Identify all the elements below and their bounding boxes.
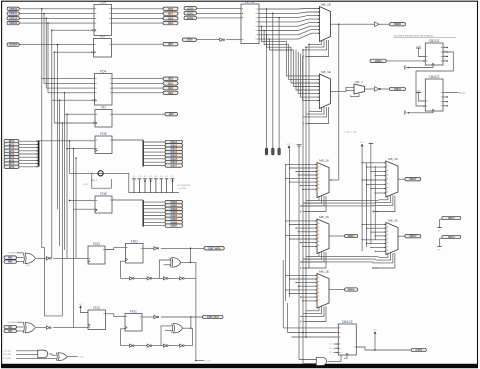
wire L2 input 0 (197, 7, 242, 9)
svg-text:5: 5 (256, 26, 257, 28)
bus B branch 7 (143, 225, 165, 227)
svg-text:IR2: IR2 (8, 329, 12, 333)
wire group-B 1 to bus (19, 143, 37, 145)
vertical to D1 (287, 303, 289, 333)
wire group-B 4 to bus (19, 153, 37, 155)
probe stub 3 (278, 18, 281, 155)
wire input row 0 to FD4a (19, 8, 94, 10)
mux M8_16 #4 (317, 215, 329, 254)
bus B branch 5 (143, 218, 165, 220)
net label input (row5 left) (7, 43, 19, 47)
wire M4 input 1 (286, 220, 317, 222)
long vertical net (x196) down (195, 278, 197, 360)
CB4CE right pin 1 (443, 101, 448, 103)
wire R1 input 7 (371, 188, 386, 190)
wire M3 input 8 (303, 188, 317, 190)
wire B2 to gate (17, 326, 24, 328)
wire R1 input 3 (371, 170, 386, 172)
svg-text:1: 1 (90, 199, 91, 201)
wire vcc to FDCa (81, 306, 89, 313)
wire C1 to AND (16, 350, 38, 352)
pull-up element 4 (154, 176, 158, 193)
svg-text:1: 1 (92, 172, 93, 174)
mux M8_16 #3 (317, 158, 329, 197)
svg-text:T_OUT: T_OUT (78, 357, 85, 359)
MUXR2 select wrap 1 (376, 253, 391, 260)
oscillator/buffer symbol (98, 171, 103, 176)
probe stub 2 (272, 13, 275, 155)
svg-text:FDC: FDC (130, 309, 137, 313)
wire M2_1 output (365, 88, 375, 90)
wire vcc down (374, 332, 376, 351)
svg-text:R2: R2 (438, 249, 440, 251)
wire FD4a Q0 to label (112, 8, 164, 10)
wire M3 input 3 (296, 171, 317, 173)
flip-flop FDCa (88, 306, 106, 330)
wire FDa Q to label (112, 43, 164, 45)
pull-up rail horizontal (129, 192, 179, 194)
svg-text:M2_1: M2_1 (355, 80, 363, 84)
termination stub 2 (437, 245, 441, 247)
net label FDa Q (163, 42, 178, 46)
select line M4-R2 2 (300, 261, 374, 263)
net label source L2 input 0 (184, 6, 197, 10)
bus A branch 4 (143, 154, 165, 156)
wire M4 input 4 (298, 231, 317, 233)
wire G5 out to CB4CE-b (328, 355, 341, 361)
trunk vertical wire 1 x=44.0 (43, 14, 45, 84)
svg-text:FDE: FDE (100, 132, 107, 136)
wrap wire 3 to MUX2 in4 (269, 39, 319, 86)
svg-text:V0: V0 (133, 176, 135, 178)
select line M3-R1 1 (303, 202, 376, 204)
wire M2_1 select wrap (351, 94, 360, 97)
pull-up element 2 (143, 176, 147, 193)
wire R1 input 6 (367, 183, 386, 185)
wire FD4b Q0 to label (112, 78, 163, 80)
svg-text:1: 1 (90, 139, 91, 141)
chain-B inverter 3 (180, 344, 185, 347)
svg-text:1. Note: 1. Note: 1. Note: 1. Note (344, 131, 357, 134)
net label center A (long) (204, 246, 224, 250)
svg-text:XQA7: XQA7 (170, 164, 177, 168)
input pill B2 (4, 325, 17, 329)
wire X1 input 2 (164, 264, 171, 266)
chain-B inverter 2 (163, 344, 168, 347)
svg-text:CRS10: CRS10 (9, 7, 18, 11)
wire to FDEb D2 (74, 208, 95, 210)
net label bus B bit 1 (165, 203, 183, 207)
wire to FDEa D2 (67, 148, 95, 150)
svg-text:M8_16: M8_16 (388, 218, 398, 222)
svg-text:V1: V1 (138, 176, 140, 178)
right vertical 3 (x370.9) (370, 144, 372, 244)
net label bus B bit 6 (165, 220, 183, 224)
counter CB2CE (425, 39, 443, 65)
net label group-B input 0 (4, 139, 19, 143)
pull-up element 0 (132, 176, 136, 193)
wire vertical E into CB4CE-b D2 junction (305, 336, 307, 338)
svg-text:MXR2: MXR2 (409, 234, 417, 238)
net label group-B input 3 (4, 149, 19, 153)
MUX3 select wrap 2 (300, 196, 324, 206)
svg-text:1: 1 (256, 9, 257, 11)
svg-text:VCC: VCC (360, 142, 365, 144)
svg-text:QD2: QD2 (168, 16, 174, 20)
wire group-B 6 to bus (19, 159, 37, 161)
net label M4 out (345, 234, 358, 238)
svg-text:FD4: FD4 (100, 69, 106, 73)
wire gnd to CB2CE (419, 48, 426, 57)
input pill B3 (4, 329, 17, 333)
wire chain B up to FDCc (121, 329, 126, 346)
wire R2 output (398, 235, 405, 237)
and-gate G5 (bottom center) (316, 357, 326, 365)
wire pill2 to stub (440, 239, 442, 247)
wire AND out to OR (49, 354, 57, 355)
MUX5 select wrap 0 (306, 307, 319, 311)
svg-text:FDE: FDE (100, 192, 107, 196)
vcc stub right column 1 (360, 142, 365, 146)
CB4CE Q0 long wire (443, 92, 458, 94)
svg-text:CB4CE: CB4CE (429, 75, 441, 79)
svg-text:L1: L1 (330, 348, 332, 350)
wire L2 pin3 to MUX1 in3 (259, 16, 320, 18)
svg-text:LDS1: LDS1 (187, 11, 194, 15)
MUX5 select wrap 1 (303, 307, 322, 314)
input pill A2 (4, 256, 17, 260)
net label source L2 input 2 (184, 16, 197, 20)
gnd stub above bundle (297, 144, 302, 146)
right vertical 1 (x362.1) (361, 144, 363, 251)
trunk vertical wire 4 x=51.8 (51, 30, 53, 258)
flip-flop FDDc (center) (126, 239, 144, 263)
svg-text:GND: GND (416, 90, 421, 92)
flip-flop FDa (94, 34, 112, 57)
svg-text:FBM1: FBM1 (394, 87, 401, 91)
net label FD4a Q1 (163, 12, 178, 16)
wire M4 input 3 (296, 227, 317, 229)
wire group-B 7 to bus (19, 163, 37, 165)
wire CB4CE-b clr down (344, 355, 347, 358)
bus collector vertical (left group B) (38, 140, 40, 166)
net label group-B input 6 (4, 158, 19, 162)
wire to FDEb D (70, 199, 96, 201)
wire M4 input 2 (290, 224, 318, 226)
net label bus A bit 7 (165, 164, 183, 168)
wire INV1 to L2_1E (226, 39, 241, 41)
bundle vertical D (x303) (302, 50, 304, 364)
or-gate G1 (cluster A) (23, 253, 35, 264)
select line M3-R1 0 (306, 199, 379, 201)
svg-text:M8_16: M8_16 (319, 158, 329, 162)
trunk vertical wire 7 x=59.6 (59, 100, 61, 246)
net label FD4a Q2 (163, 16, 178, 20)
chain-A inverter 0 (130, 277, 135, 280)
wire FDEa Q to bus tap (112, 139, 143, 141)
svg-text:MXR1: MXR1 (409, 177, 417, 181)
svg-text:WR_EN1: WR_EN1 (4, 354, 12, 356)
wire FD4b Q2 to label (112, 87, 163, 89)
flip-flop FDEa (95, 132, 112, 154)
svg-text:2: 2 (242, 13, 243, 15)
trunk vertical wire 11 x=69.5 (69, 141, 71, 174)
wire M3 input 2 (290, 167, 318, 169)
trunk vertical wire 13 x=76.0 (75, 158, 77, 258)
bus bar B (vertical) (142, 200, 144, 226)
net label bottom right (411, 348, 426, 352)
MUX1 select wrap 2 (303, 40, 327, 50)
svg-text:QD0: QD0 (168, 7, 174, 11)
svg-text:RD_EN1: RD_EN1 (4, 358, 11, 360)
CB4CE right pin 2 (443, 105, 448, 107)
wire M5 input 7 (300, 296, 317, 298)
svg-text:2: 2 (256, 13, 257, 15)
trunk vertical wire 8 x=62.3 (61, 123, 63, 316)
inverter INV4 (center) (154, 247, 159, 250)
net label bus A bit 3 (165, 150, 183, 154)
terminal tick left of clr wire (404, 111, 406, 115)
svg-text:QD1: QD1 (168, 12, 174, 16)
svg-text:FDD: FDD (93, 242, 100, 246)
svg-text:7: 7 (256, 34, 257, 36)
wire M5 input 6 (290, 293, 318, 295)
chain-B inverter 1 (147, 344, 152, 347)
wire FD4b Q3 to label (112, 92, 163, 94)
wrap wire 0 to MUX2 in1 (262, 26, 320, 76)
net label FD4a Q3 (163, 21, 178, 25)
wire L2 input 1 (197, 12, 242, 14)
MUX1 select wrap 0 (309, 40, 322, 44)
svg-text:MXB4: MXB4 (348, 234, 356, 238)
bundle wire to MUX2 in7 (300, 54, 319, 97)
svg-text:3: 3 (242, 17, 243, 19)
wire input row 3 to FD4a (19, 22, 94, 24)
net label input IBUF0 (top-left) (7, 7, 19, 11)
bus B branch 0 (143, 201, 165, 203)
wire FDCa Q up-over to FDCc (106, 314, 126, 317)
wire group-B 3 to bus (19, 150, 37, 152)
svg-text:OR3: OR3 (26, 265, 30, 267)
standalone net label right 2 (442, 235, 461, 239)
wire clk FD4a (52, 29, 94, 31)
net label bus A bit 6 (165, 160, 183, 164)
svg-text:FD4: FD4 (100, 0, 106, 4)
counter CB4CE (right) (425, 75, 443, 111)
wire L2 pin1 to MUX1 in1 (259, 8, 320, 11)
wire M5 input 1 (286, 274, 317, 276)
wire G1 to INV2 (36, 257, 46, 259)
wire R2 input 4 (375, 235, 386, 237)
net label FDb Q (165, 112, 178, 116)
wire pill1 to stub (440, 220, 442, 228)
wire group-B 5 to bus (19, 156, 37, 158)
svg-text:QD3: QD3 (168, 21, 174, 25)
svg-text:V5: V5 (160, 176, 162, 178)
pull-up element 5 (160, 176, 164, 193)
wire C3 to OR (16, 357, 57, 359)
wire row5 to FDa D (19, 44, 93, 46)
wire B1 to gate (17, 321, 24, 323)
bus B branch 6 (143, 221, 165, 223)
wire R2 input 3 (371, 231, 386, 233)
svg-text:XQB7: XQB7 (170, 224, 177, 228)
net label bus B bit 2 (165, 207, 183, 211)
input pill A3 (4, 260, 17, 264)
trunk vertical wire 6 x=57.5 (57, 45, 59, 210)
wire input row 2 to FD4a (19, 17, 94, 19)
wire C2 to AND (16, 353, 38, 355)
svg-text:M8_1E: M8_1E (321, 2, 331, 6)
wire CB4CE-b D0 (283, 327, 338, 329)
MUX2 select wrap 0 (309, 107, 322, 111)
svg-text:QP0: QP0 (168, 42, 174, 46)
terminal tick left of clr wire upper (404, 65, 406, 69)
wire M3 input 7 (300, 185, 317, 187)
wire clk FD4b (52, 99, 95, 101)
wire G5 in1 (299, 359, 316, 361)
feedback loop wire around oscillator (92, 173, 112, 188)
vcc stub above bundle (287, 144, 292, 148)
net label center B (long) (203, 315, 223, 319)
mux M8_1E #1 (top) (320, 2, 331, 41)
svg-text:L0: L0 (330, 344, 332, 346)
svg-text:M8_1E: M8_1E (319, 269, 329, 273)
svg-text:SRC1: SRC1 (448, 216, 455, 220)
CB2CE right pin 1 (443, 51, 448, 53)
net label bus A bit 5 (165, 157, 183, 161)
net label source L2 input 1 (184, 11, 197, 15)
wire junction down to XOR A (189, 248, 191, 262)
net label bus A bit 1 (165, 143, 183, 147)
wire CB2CE wrap to CB4CE clk (416, 52, 453, 106)
wire CB2CE clr left (407, 65, 434, 68)
wire chain A up to FDDc (121, 261, 126, 278)
wire bus to FDEa D (39, 140, 95, 142)
MUX4 select wrap 2 (300, 252, 324, 262)
svg-text:CRS12: CRS12 (9, 16, 18, 20)
wire x196 bottom to label (196, 360, 204, 362)
bundle wire to MUX2 in8 (303, 56, 320, 101)
svg-text:IR1: IR1 (8, 325, 12, 329)
wire X2 output loop (183, 328, 192, 333)
wire M5 input 2 (290, 278, 318, 280)
vertical feedback x338.8 (338, 24, 340, 180)
wire L2 input 2 (197, 17, 242, 19)
svg-text:L2_1E: L2_1E (245, 0, 255, 4)
flip-flop FDb (95, 105, 112, 127)
flip-flop FDEb (95, 192, 112, 213)
net label source (inverter row) (183, 38, 197, 42)
svg-text:M8_16: M8_16 (388, 157, 398, 161)
svg-text:SRC2: SRC2 (448, 235, 455, 239)
wire X2 input 2 (165, 330, 172, 332)
bundle vertical C (x299) (298, 146, 300, 359)
wire A1 to gate (17, 252, 24, 254)
svg-text:IW2: IW2 (8, 260, 13, 264)
vcc stub above FDCa (79, 304, 84, 308)
wire G5 in2 (303, 363, 316, 365)
svg-text:V3: V3 (149, 176, 151, 178)
wire A2 to gate (17, 257, 24, 259)
flip-flop FDCc (center) (125, 309, 142, 331)
wire M5 input 5 (286, 289, 317, 291)
wire L2 pin7 to MUX1 in7 (259, 30, 320, 35)
wire R1 input 5 (362, 179, 386, 181)
wire R1 output (398, 178, 405, 180)
wire MUX2 output (331, 90, 355, 93)
right vertical 4 (x375.2) (374, 166, 376, 240)
wire G2 to INV3 (36, 327, 46, 329)
svg-text:6: 6 (256, 30, 257, 32)
svg-text:V6: V6 (165, 176, 167, 178)
trunk vertical wire 2 x=46.2 (45, 18, 47, 88)
mux M8_16 R1 (right) (386, 157, 398, 197)
MUXR1 select wrap 1 (376, 196, 391, 203)
flip-flop FD4a (94, 0, 112, 35)
wire junction down to XOR B (190, 317, 192, 328)
svg-text:CRS13: CRS13 (9, 21, 18, 25)
wire L2 pin8 to MUX1 in8 (259, 33, 320, 39)
net label group-B input 1 (4, 142, 19, 146)
svg-text:3: 3 (256, 17, 257, 19)
svg-text:GND: GND (416, 46, 421, 48)
inverter INV1 (top center) (220, 38, 225, 41)
net label group-B input 7 (4, 162, 19, 166)
bundle vertical A (x285.7) (285, 164, 287, 301)
wire oscillator to rail corner (103, 173, 129, 192)
MUX2 select wrap 1 (306, 107, 324, 114)
counter CB4CE (bottom) (338, 320, 356, 355)
bus B branch 1 (143, 205, 165, 207)
wire INV5 to label pill (161, 316, 203, 318)
wire INV3 to FDCa (53, 327, 88, 329)
svg-text:CB2CE: CB2CE (429, 39, 441, 43)
svg-text:FB_O4: FB_O4 (459, 92, 465, 94)
wire R2 input 1 (362, 223, 386, 225)
wire group-B 8 to bus (19, 166, 37, 168)
wire INV4 to label pill (161, 247, 204, 249)
svg-text:QB2: QB2 (168, 86, 174, 90)
MUX5 select wrap 2 (300, 307, 324, 317)
svg-text:1: 1 (242, 9, 243, 11)
flip-flop FDDa (88, 242, 105, 264)
svg-text:CB4CE: CB4CE (342, 320, 354, 324)
and-gate G3 (cluster C) (38, 350, 48, 358)
svg-text:CLK_A0: CLK_A0 (4, 350, 11, 353)
CB2CE right pin 2 (443, 56, 448, 58)
net label bus B bit 5 (165, 217, 183, 221)
net label FD4b Q2 (163, 86, 178, 90)
gnd symbol CB4CE (416, 90, 421, 92)
bus A branch 3 (143, 151, 165, 153)
wire R2 input 8 (375, 250, 386, 252)
wire M4 input 8 (303, 245, 317, 247)
bus bar A (vertical) (142, 140, 144, 166)
wire G4 output (68, 356, 78, 358)
wire X2 inputs left rail (161, 326, 172, 346)
net label group-B input 4 (4, 152, 19, 156)
wire L2 pin4 to MUX1 in4 (259, 19, 320, 22)
bus B branch 3 (143, 211, 165, 213)
svg-text:QB3: QB3 (168, 91, 174, 95)
svg-text:VCC: VCC (79, 304, 84, 306)
wire R1 input 1 (362, 162, 386, 164)
wire FD4a Q2 to label (112, 17, 164, 19)
chain-A inverter 3 (180, 277, 185, 280)
svg-text:VCC: VCC (373, 330, 378, 332)
wire clk FDa (54, 51, 93, 53)
